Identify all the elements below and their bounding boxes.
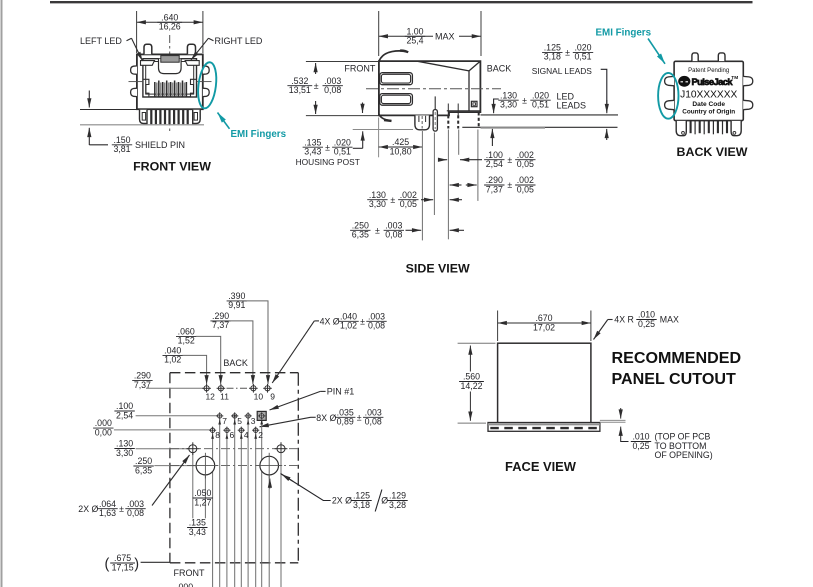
RECOMMENDED PANEL CUTOUT heading (612, 349, 742, 388)
svg-text:FRONT: FRONT (344, 64, 375, 74)
svg-text:16,26: 16,26 (159, 22, 181, 32)
svg-text:10: 10 (254, 392, 264, 402)
svg-text:8X Ø: 8X Ø (316, 413, 336, 423)
dimension .290/7,37 (led pin row) (132, 371, 250, 390)
dimension .135/3,43 +- .020/0,51 HOUSING POST (296, 103, 413, 168)
callout 8X dia .035/0,89 +- .003/0,08 (260, 407, 384, 426)
svg-text:EMI Fingers: EMI Fingers (596, 28, 652, 39)
svg-text:LEFT LED: LEFT LED (80, 36, 122, 46)
svg-text:3,43: 3,43 (189, 527, 206, 537)
svg-text:PANEL CUTOUT: PANEL CUTOUT (612, 370, 736, 388)
EMI fingers ellipse (back view) (658, 73, 678, 119)
svg-text:Date Code: Date Code (692, 101, 725, 108)
svg-text:25,4: 25,4 (406, 36, 423, 46)
dimensions .050/1,27 and .135/3,43 (187, 488, 213, 537)
svg-text:BACK: BACK (223, 358, 248, 368)
svg-text:14,22: 14,22 (460, 381, 482, 391)
svg-text:7,37: 7,37 (134, 380, 151, 390)
svg-text:0,05: 0,05 (517, 184, 534, 194)
dimension .532/13,51 +- .003/0,08 (287, 62, 378, 116)
dimension .250/6,35 +- .003/0,08 (350, 220, 464, 239)
signal pins 1-8 with labels (209, 411, 266, 440)
svg-text:3,30: 3,30 (116, 448, 133, 458)
callout 4X dia .040/1,02 +- .003/0,08 (272, 311, 387, 383)
svg-text:±: ± (360, 316, 365, 326)
svg-text:RIGHT LED: RIGHT LED (215, 36, 263, 46)
callout 2X dia .064/1,63 +- .003/0,08 (78, 455, 189, 518)
svg-text:2X Ø: 2X Ø (78, 504, 98, 514)
svg-text:): ) (134, 557, 139, 573)
svg-text:3: 3 (251, 416, 256, 426)
svg-text:0,05: 0,05 (517, 159, 534, 169)
svg-text:6,35: 6,35 (352, 230, 369, 240)
svg-text:±: ± (565, 48, 570, 58)
svg-text:17,15: 17,15 (112, 562, 134, 572)
svg-text:0,08: 0,08 (127, 508, 144, 518)
svg-text:PulseJack: PulseJack (692, 76, 734, 87)
svg-text:1,63: 1,63 (99, 508, 116, 518)
svg-text:MAX: MAX (660, 315, 679, 325)
svg-text:±: ± (119, 504, 124, 514)
PIN #1 callout (270, 387, 355, 410)
svg-text:7: 7 (222, 416, 227, 426)
svg-text:BACK VIEW: BACK VIEW (677, 145, 748, 159)
face view .670/17,02 dimension (498, 311, 591, 342)
dimension .100/2,54 +- .002/0,05 (438, 150, 535, 169)
svg-text:4X R: 4X R (614, 315, 634, 325)
svg-text:1,02: 1,02 (164, 355, 181, 365)
svg-text:TM: TM (731, 75, 738, 81)
svg-text:0,08: 0,08 (368, 321, 385, 331)
EMI fingers ellipse (front view) (196, 61, 219, 109)
svg-text:Patent Pending: Patent Pending (688, 68, 729, 74)
dimension .150/3,81 shield pin (89, 91, 185, 155)
svg-text:3,81: 3,81 (113, 144, 130, 154)
pin extension lines to bottom edge (213, 420, 262, 587)
svg-text:6: 6 (230, 430, 235, 440)
svg-text:PIN #1: PIN #1 (327, 387, 355, 397)
svg-text:J10XXXXXX: J10XXXXXX (680, 89, 737, 100)
svg-text:±: ± (314, 81, 319, 91)
svg-text:6,35: 6,35 (135, 465, 152, 475)
svg-text:4X Ø: 4X Ø (320, 316, 340, 326)
svg-text:±: ± (507, 155, 512, 165)
dimension .290/7,37 +- .002/0,05 (450, 175, 536, 194)
svg-text:BACK: BACK (487, 64, 512, 74)
dimension .425/10,80 (379, 118, 423, 158)
callout 4X R .010/0,25 MAX (594, 310, 679, 340)
svg-text:9: 9 (270, 392, 275, 402)
svg-text:FRONT VIEW: FRONT VIEW (133, 159, 211, 173)
mounting holes and centers (186, 442, 287, 587)
bottom view dashed body outline (170, 373, 298, 563)
svg-text:2,54: 2,54 (116, 410, 133, 420)
dimension .130/3,30 +- .002/0,05 (367, 190, 462, 209)
svg-text:2,54: 2,54 (486, 159, 503, 169)
svg-text:±: ± (375, 225, 380, 235)
bottom view leader dimensions .390 .290 .060 .040 (163, 291, 269, 384)
dimension .125/3,18 +- .020/0,51 SIGNAL LEADS (532, 43, 607, 141)
svg-text:Ø: Ø (381, 496, 388, 506)
svg-text:2X Ø: 2X Ø (332, 496, 352, 506)
svg-text:11: 11 (220, 392, 229, 402)
LEFT LED label and leader (80, 36, 143, 61)
svg-text:5: 5 (237, 416, 242, 426)
hole centerlines (170, 449, 298, 466)
svg-text:3,28: 3,28 (389, 500, 406, 510)
face view cutout rectangle and panel strip (488, 343, 626, 431)
svg-text:OF OPENING): OF OPENING) (655, 450, 713, 460)
side view connector body with slots, housing post and pins (366, 51, 501, 132)
svg-text:17,02: 17,02 (533, 322, 555, 332)
svg-text:SIGNAL LEADS: SIGNAL LEADS (532, 66, 593, 76)
svg-text:0,89: 0,89 (337, 417, 354, 427)
svg-text:±: ± (325, 142, 330, 152)
svg-text:1,27: 1,27 (194, 497, 211, 507)
svg-text:0,51: 0,51 (334, 147, 351, 157)
RIGHT LED label and leader (191, 36, 263, 60)
dimension .130/3,30 +- .020/0,51 LED LEADS (492, 90, 586, 146)
svg-text:3,18: 3,18 (353, 500, 370, 510)
svg-text:FACE VIEW: FACE VIEW (505, 459, 577, 474)
EMI Fingers callout (front view) (218, 113, 287, 140)
reference dimension (.675/17,15) (105, 553, 170, 572)
svg-text:MAX: MAX (435, 32, 455, 42)
svg-text:12: 12 (205, 392, 215, 402)
callout 2X dia .125/3,18 dia .129/3,28 (281, 474, 408, 512)
svg-text:3,43: 3,43 (304, 147, 321, 157)
svg-text:±: ± (522, 95, 527, 105)
svg-text:SIDE VIEW: SIDE VIEW (406, 262, 470, 276)
svg-text:2: 2 (258, 430, 263, 440)
svg-text:0,51: 0,51 (574, 52, 591, 62)
left dimensions .100 .000 .130 .250 (93, 401, 217, 475)
top border rule (50, 1, 753, 3)
svg-text:0,05: 0,05 (400, 199, 417, 209)
svg-text:LEADS: LEADS (557, 101, 587, 111)
EMI Fingers callout (back view) (596, 28, 666, 64)
svg-text:0,25: 0,25 (638, 319, 655, 329)
svg-text:±: ± (507, 180, 512, 190)
svg-text:(: ( (105, 557, 110, 573)
svg-text:0,25: 0,25 (632, 441, 649, 451)
svg-text:Country of Origin: Country of Origin (682, 109, 735, 116)
svg-text:7,37: 7,37 (486, 184, 503, 194)
svg-text:3,30: 3,30 (500, 100, 517, 110)
svg-text:0,51: 0,51 (532, 100, 549, 110)
pin extension lines below side view (422, 130, 478, 241)
led pins 12 11 10 9 (202, 384, 275, 402)
svg-text:8: 8 (215, 430, 220, 440)
back view connector drawing with labels (665, 53, 753, 136)
svg-text:9,91: 9,91 (228, 300, 245, 310)
svg-text:10,80: 10,80 (390, 146, 412, 156)
svg-text:3,30: 3,30 (369, 199, 386, 209)
svg-text:HOUSING POST: HOUSING POST (296, 157, 360, 167)
svg-text:1,52: 1,52 (178, 336, 195, 346)
svg-text:0,00: 0,00 (95, 427, 112, 437)
svg-text:EMI Fingers: EMI Fingers (231, 129, 287, 140)
front view connector drawing with .640/16,26 dimension (80, 11, 212, 131)
side view 1.00/25,4 MAX dimension (379, 11, 481, 56)
dimension .010/0,25 (top of pcb to bottom of opening) (621, 408, 713, 460)
svg-text:0,08: 0,08 (324, 85, 341, 95)
svg-text:3,18: 3,18 (544, 52, 561, 62)
svg-text:1,02: 1,02 (340, 321, 357, 331)
svg-text:.000: .000 (176, 582, 193, 587)
page left edge line (1, 0, 3, 587)
face view .560/14,22 dimension (458, 343, 496, 423)
svg-text:0,08: 0,08 (365, 417, 382, 427)
svg-text:RECOMMENDED: RECOMMENDED (612, 349, 742, 367)
svg-text:±: ± (357, 412, 362, 422)
svg-text:0,08: 0,08 (385, 230, 402, 240)
svg-text:4: 4 (244, 430, 249, 440)
svg-text:±: ± (390, 195, 395, 205)
pcb top and bottom lines (side view right) (462, 115, 618, 128)
svg-text:13,51: 13,51 (289, 85, 311, 95)
svg-text:FRONT: FRONT (174, 568, 205, 578)
svg-text:SHIELD PIN: SHIELD PIN (135, 140, 185, 150)
svg-text:7,37: 7,37 (212, 320, 229, 330)
